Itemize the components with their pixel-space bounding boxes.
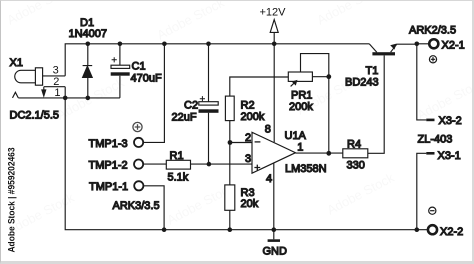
wire left vertical top (pin3 to +rail) bbox=[65, 44, 369, 76]
X1 switch arrow bbox=[42, 87, 46, 96]
wire V+ column to op-amp pin 8 bbox=[273, 44, 275, 142]
svg-text:1: 1 bbox=[54, 87, 60, 99]
watermark circle-plus mark bbox=[133, 122, 142, 131]
wire op-amp pin 4 to bottom rail bbox=[273, 163, 275, 229]
svg-text:TMP1-3: TMP1-3 bbox=[89, 138, 128, 150]
svg-text:PR1: PR1 bbox=[291, 89, 312, 101]
node X2-2 junction bbox=[415, 227, 420, 232]
capacitor C1 bbox=[111, 44, 130, 98]
wire X2-1 to X3-2 bbox=[417, 44, 427, 120]
wire pin2 bbox=[230, 142, 252, 144]
terminal X2-2 bbox=[428, 225, 437, 234]
node C2 top rail bbox=[206, 42, 211, 47]
svg-text:470uF: 470uF bbox=[131, 73, 162, 85]
svg-text:3: 3 bbox=[245, 153, 251, 165]
diode D1 bbox=[83, 44, 93, 98]
node +12V rail bbox=[272, 42, 277, 47]
power +12V bbox=[260, 7, 287, 44]
node TMP1-1 rail bbox=[162, 227, 167, 232]
svg-text:C2: C2 bbox=[184, 100, 198, 112]
svg-text:ZL-403: ZL-403 bbox=[418, 133, 453, 145]
svg-text:TMP1-1: TMP1-1 bbox=[89, 181, 128, 193]
node pin4 bottom rail bbox=[272, 227, 277, 232]
svg-text:X2-2: X2-2 bbox=[440, 226, 463, 238]
node inverting input junction bbox=[228, 140, 233, 145]
svg-text:TMP1-2: TMP1-2 bbox=[89, 159, 128, 171]
svg-text:X3-1: X3-1 bbox=[438, 150, 461, 162]
svg-text:T1: T1 bbox=[366, 65, 379, 77]
node R3 bottom rail bbox=[228, 227, 233, 232]
potentiometer PR1 bbox=[288, 54, 329, 87]
svg-text:8: 8 bbox=[265, 123, 271, 135]
svg-text:Adobe Stock: Adobe Stock bbox=[324, 170, 397, 218]
terminal X2-1 bbox=[429, 39, 438, 48]
ground bbox=[268, 230, 280, 242]
node D1 bottom bbox=[86, 96, 91, 101]
node C1 top rail bbox=[118, 42, 123, 47]
svg-text:200k: 200k bbox=[289, 101, 313, 113]
svg-text:330: 330 bbox=[347, 160, 365, 172]
svg-text:Adobe Stock: Adobe Stock bbox=[314, 0, 387, 28]
X1 pin 2 bbox=[44, 76, 65, 88]
X1 pin 1 bbox=[18, 87, 120, 99]
svg-text:20k: 20k bbox=[241, 198, 259, 210]
svg-text:GND: GND bbox=[263, 246, 288, 258]
svg-text:R1: R1 bbox=[170, 150, 184, 162]
svg-text:1: 1 bbox=[297, 141, 303, 153]
node pin1 junction bbox=[63, 96, 68, 101]
terminal pin X3-2 bbox=[426, 119, 434, 122]
svg-text:BD243: BD243 bbox=[345, 77, 379, 89]
capacitor C2 bbox=[199, 44, 219, 164]
svg-text:Adobe Stock: Adobe Stock bbox=[154, 0, 227, 43]
wire left vertical bottom (pin2 to bottom rail) bbox=[65, 87, 427, 230]
wire to X2-1 bbox=[417, 43, 429, 45]
terminal pin X3-1 bbox=[426, 152, 434, 155]
svg-text:Adobe Stock | #959202463: Adobe Stock | #959202463 bbox=[6, 148, 16, 253]
wire op-amp output bbox=[296, 152, 343, 154]
svg-text:ARK2/3.5: ARK2/3.5 bbox=[409, 25, 456, 37]
terminal TMP1-1 bbox=[134, 181, 143, 190]
wire TMP1-1 to bottom rail bbox=[143, 186, 164, 230]
op-amp U1A bbox=[252, 132, 296, 173]
resistor R4 bbox=[343, 56, 384, 158]
terminal TMP1-3 bbox=[134, 138, 143, 147]
svg-text:+12V: +12V bbox=[260, 7, 287, 19]
svg-text:R2: R2 bbox=[241, 100, 255, 112]
minus polarity mark bbox=[429, 207, 436, 214]
svg-text:4: 4 bbox=[266, 173, 272, 185]
resistor R3 bbox=[225, 143, 235, 230]
wire X3-1 to X2-2 bbox=[417, 153, 427, 229]
connector X1 (DC barrel jack) bbox=[13, 68, 43, 98]
node TMP1-3 rail bbox=[162, 42, 167, 47]
X1 pin 3 bbox=[43, 65, 66, 77]
svg-text:X3-2: X3-2 bbox=[439, 115, 462, 127]
svg-text:R4: R4 bbox=[347, 139, 361, 151]
terminal TMP1-2 bbox=[134, 160, 143, 169]
svg-text:5.1k: 5.1k bbox=[168, 171, 189, 183]
wire feedback vertical bbox=[328, 77, 330, 154]
node op-amp output junction bbox=[326, 151, 331, 156]
resistor R1 bbox=[144, 160, 252, 169]
node C2 pin3 junction bbox=[207, 162, 212, 167]
node D1 top rail bbox=[86, 42, 91, 47]
transistor T1 bbox=[369, 44, 417, 56]
svg-text:3: 3 bbox=[53, 65, 59, 77]
svg-text:X2-1: X2-1 bbox=[442, 40, 465, 52]
wire TMP1-3 to +rail bbox=[144, 44, 164, 143]
svg-text:LM358N: LM358N bbox=[285, 163, 327, 175]
svg-text:ARK3/3.5: ARK3/3.5 bbox=[113, 200, 160, 212]
svg-text:DC2.1/5.5: DC2.1/5.5 bbox=[10, 110, 60, 122]
svg-text:2: 2 bbox=[53, 76, 59, 88]
svg-text:C1: C1 bbox=[132, 61, 146, 73]
svg-text:2: 2 bbox=[245, 132, 251, 144]
svg-text:Adobe Stock: Adobe Stock bbox=[4, 0, 77, 28]
svg-text:1N4007: 1N4007 bbox=[69, 28, 108, 40]
svg-text:200k: 200k bbox=[241, 111, 265, 123]
svg-text:22uF: 22uF bbox=[172, 111, 197, 123]
node X2-1 junction bbox=[415, 42, 420, 47]
resistor R2 bbox=[225, 77, 288, 143]
svg-text:X1: X1 bbox=[10, 57, 23, 69]
node PR1 right junction bbox=[326, 74, 331, 79]
plus polarity mark bbox=[429, 56, 436, 63]
